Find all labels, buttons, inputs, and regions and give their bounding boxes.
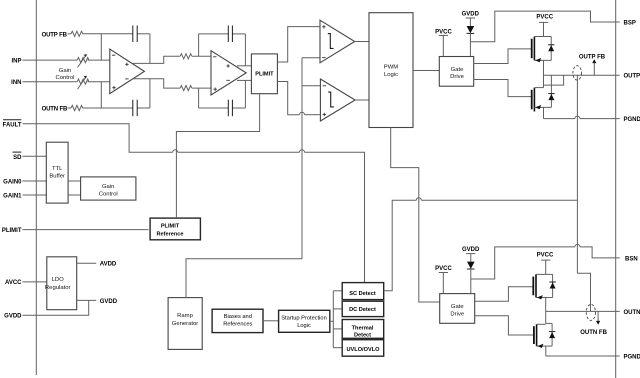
- wire SD: [23, 155, 47, 157]
- svg-text:DC Detect: DC Detect: [349, 307, 376, 313]
- svg-text:BSN: BSN: [625, 256, 638, 262]
- svg-text:UVLO/OVLO: UVLO/OVLO: [347, 347, 381, 353]
- pin INP: [11, 58, 21, 64]
- supply GVDD (bottom): [462, 247, 480, 262]
- svg-text:PVCC: PVCC: [536, 15, 553, 21]
- wire GVDD pin: [23, 300, 89, 315]
- wire TTL to gain control: [68, 181, 81, 195]
- supply PVCC (FET3 drain): [537, 253, 554, 275]
- wire output sense line: [577, 75, 590, 311]
- block UVLO/OVLO: [342, 340, 384, 357]
- wire PGND bottom: [546, 355, 620, 357]
- wire ramp output: [186, 259, 302, 298]
- diode D1 (GVDD bootstrap top): [467, 26, 475, 56]
- svg-text:Control: Control: [56, 75, 75, 81]
- svg-text:Regulator: Regulator: [45, 285, 71, 291]
- svg-text:PWM: PWM: [384, 64, 398, 70]
- wire op1 bottom output: [133, 79, 180, 88]
- wire OUTN FB feedback: [83, 79, 150, 108]
- svg-text:Control: Control: [99, 191, 118, 197]
- node sense ellipse OUTN (dashed): [586, 304, 595, 320]
- wire op2 bottom feedback: [199, 80, 246, 108]
- svg-text:Thermal: Thermal: [352, 325, 374, 331]
- comparator U4 (bottom): [320, 79, 355, 121]
- pin GAIN1: [3, 193, 22, 199]
- svg-text:Gain: Gain: [102, 184, 114, 190]
- pin SD: [13, 152, 23, 161]
- svg-text:GAIN1: GAIN1: [3, 193, 22, 199]
- svg-text:PGND: PGND: [624, 117, 640, 123]
- svg-text:LDO: LDO: [52, 277, 65, 283]
- capacitor C1 (top integrator): [133, 26, 137, 43]
- supply PVCC (gate drive 2): [435, 266, 452, 293]
- svg-text:TTL: TTL: [52, 166, 63, 172]
- net label OUTP FB (top left): [42, 32, 68, 38]
- border frame left: [35, 0, 37, 375]
- node sense ellipse OUTP (dashed): [573, 66, 582, 80]
- block Startup Protection Logic: [279, 310, 330, 332]
- svg-text:PVCC: PVCC: [435, 29, 452, 35]
- svg-text:PVCC: PVCC: [537, 253, 554, 259]
- pin BSN: [625, 256, 638, 262]
- diode D3 body (Q2): [548, 75, 554, 107]
- wire AVCC: [23, 281, 47, 283]
- diode D2 body (Q1): [548, 37, 554, 61]
- svg-text:PLIMIT: PLIMIT: [2, 228, 22, 234]
- wire BSP bootstrap: [470, 11, 619, 42]
- wire AVDD out: [77, 262, 97, 264]
- svg-text:PLIMIT: PLIMIT: [161, 224, 180, 230]
- comparator U3 (top): [320, 20, 355, 63]
- block PWM Logic: [369, 13, 413, 128]
- wire op1 top output: [133, 56, 180, 63]
- wire GVDD out: [77, 299, 97, 301]
- svg-text:Ramp: Ramp: [177, 313, 193, 319]
- wire switch node OUTP: [544, 75, 620, 85]
- svg-text:Startup Protection: Startup Protection: [281, 315, 327, 321]
- svg-text:AVDD: AVDD: [100, 262, 117, 268]
- wire PLIMIT top out to comparator 1: [277, 27, 320, 62]
- transistor Q3 (high side, OUTN): [533, 274, 552, 323]
- svg-text:Logic: Logic: [297, 323, 311, 329]
- wire PWM to gate drive 2: [391, 128, 440, 303]
- svg-text:OUTP: OUTP: [624, 74, 640, 80]
- wire PLIMIT reference to PLIMIT block: [176, 94, 259, 218]
- transistor Q2 (low side, OUTP): [532, 88, 552, 119]
- block Gate Drive 1: [439, 57, 473, 87]
- op-amp U1 first integrator: [110, 49, 145, 94]
- wire biases to startup: [263, 320, 279, 322]
- pin GVDD: [4, 314, 22, 320]
- block Biases and References: [212, 309, 263, 332]
- svg-text:GVDD: GVDD: [462, 12, 480, 18]
- net label GVDD: [100, 299, 118, 305]
- capacitor C3 (op2 top): [228, 26, 232, 43]
- block Gate Drive 2: [440, 294, 475, 324]
- block Ramp Generator: [168, 298, 202, 350]
- svg-text:FAULT: FAULT: [3, 122, 22, 128]
- wire gate drive 2 to high FET gate: [475, 287, 533, 301]
- transistor Q4 (low side, OUTN): [534, 324, 552, 356]
- wire comp1 output: [355, 41, 369, 43]
- svg-text:Buffer: Buffer: [49, 174, 65, 180]
- svg-text:GAIN0: GAIN0: [3, 179, 22, 185]
- svg-text:Logic: Logic: [384, 72, 398, 78]
- wire gate drive 1 to low FET gate: [474, 80, 531, 97]
- wire gate drive 1 to high FET gate: [474, 49, 531, 64]
- block PLIMIT: [251, 54, 277, 94]
- block SC Detect: [342, 283, 384, 300]
- svg-text:OUTN: OUTN: [624, 310, 640, 316]
- wire GAIN0: [23, 180, 47, 182]
- diode D4 (GVDD bootstrap bottom): [467, 262, 475, 294]
- pin AVCC: [5, 280, 22, 286]
- label Gain Control (input stage): [56, 68, 75, 81]
- wire gate drive 2 to low FET gate: [475, 316, 533, 335]
- net label AVDD: [100, 262, 117, 268]
- diode D5 body (Q3): [549, 274, 555, 297]
- wire comp2 output: [355, 99, 369, 101]
- pin OUTN: [624, 310, 640, 316]
- block PLIMIT Reference: [150, 218, 200, 240]
- supply PVCC (gate drive 1): [435, 29, 452, 56]
- pin INN: [11, 80, 21, 86]
- wire PLIMIT pin: [23, 229, 149, 231]
- svg-text:GVDD: GVDD: [100, 299, 118, 305]
- svg-text:Drive: Drive: [450, 311, 464, 317]
- wire switch node OUTN: [546, 311, 620, 323]
- block Thermal Detect: [342, 320, 384, 339]
- block TTL Buffer: [46, 142, 68, 203]
- wire PLIMIT bottom out to comparator 2 (with hop): [277, 82, 320, 115]
- svg-text:Generator: Generator: [172, 321, 199, 327]
- pin OUTP: [624, 74, 640, 80]
- block Gain Control: [81, 177, 136, 200]
- svg-text:Gate: Gate: [451, 304, 464, 310]
- resistor R3 (to op2 top): [180, 54, 211, 59]
- svg-text:Reference: Reference: [156, 232, 183, 238]
- net label OUTN FB (left): [42, 107, 68, 113]
- border frame right: [615, 0, 617, 378]
- resistor OUTN FB: [68, 105, 83, 110]
- wire protection bracket: [330, 291, 342, 348]
- net label OUTP FB tap: [579, 54, 606, 75]
- transistor Q1 (high side, OUTP): [532, 37, 552, 88]
- variable resistor gain INP: [77, 54, 89, 67]
- op-amp U2 second integrator: [211, 51, 246, 95]
- pin BSP: [624, 20, 636, 26]
- wire SC detect to sense line (with hop): [384, 198, 577, 291]
- wire OUTP FB feedback: [83, 34, 150, 64]
- variable resistor gain INN: [77, 76, 89, 89]
- pin PLIMIT: [2, 228, 22, 234]
- svg-text:GVDD: GVDD: [462, 247, 480, 253]
- svg-text:Drive: Drive: [450, 74, 464, 80]
- wire op2 outputs to PLIMIT: [237, 66, 251, 81]
- block DC Detect: [342, 301, 384, 316]
- wire INP: [23, 59, 110, 61]
- svg-text:BSP: BSP: [624, 20, 636, 26]
- wire PWM to gate drive 1: [413, 70, 439, 72]
- svg-text:OUTN FB: OUTN FB: [42, 107, 68, 113]
- svg-text:OUTP FB: OUTP FB: [579, 54, 606, 60]
- svg-text:Biases and: Biases and: [224, 314, 252, 320]
- wire FAULT (with hops): [23, 124, 365, 283]
- supply GVDD (top): [462, 12, 480, 26]
- svg-text:PGND: PGND: [624, 354, 640, 360]
- wire PGND top (with hop): [544, 116, 620, 119]
- capacitor C4 (op2 bottom): [228, 100, 232, 117]
- wire INN: [23, 81, 110, 83]
- wire GAIN1: [23, 194, 47, 196]
- svg-text:PLIMIT: PLIMIT: [255, 71, 274, 77]
- pin PGND (bottom): [624, 354, 640, 360]
- svg-text:INN: INN: [11, 80, 21, 86]
- svg-text:SD: SD: [13, 155, 22, 161]
- resistor R4 (to op2 bottom): [180, 86, 211, 91]
- wire BSN bootstrap (with hop): [471, 244, 620, 279]
- diode D6 body (Q4): [549, 323, 555, 346]
- svg-text:OUTN FB: OUTN FB: [580, 330, 607, 336]
- wire op2 top feedback: [199, 34, 246, 66]
- pin FAULT: [3, 120, 22, 129]
- block LDO Regulator: [45, 257, 77, 310]
- svg-text:OUTP FB: OUTP FB: [42, 32, 68, 38]
- svg-text:Gate: Gate: [451, 67, 464, 73]
- wire ramp riser node: [302, 58, 320, 259]
- pin PGND (top): [624, 117, 640, 123]
- capacitor C2 (bottom integrator): [133, 100, 137, 117]
- resistor OUTP FB: [68, 31, 83, 36]
- svg-text:AVCC: AVCC: [5, 280, 22, 286]
- svg-text:GVDD: GVDD: [4, 314, 22, 320]
- svg-text:Detect: Detect: [354, 333, 371, 339]
- svg-text:PVCC: PVCC: [435, 266, 452, 272]
- svg-text:References: References: [223, 321, 252, 327]
- supply PVCC (FET1 drain): [536, 15, 553, 37]
- svg-text:Gain: Gain: [59, 68, 71, 74]
- svg-text:INP: INP: [11, 58, 21, 64]
- pin GAIN0: [3, 179, 22, 185]
- svg-text:SC Detect: SC Detect: [349, 291, 376, 297]
- net label OUTN FB tap: [580, 311, 607, 336]
